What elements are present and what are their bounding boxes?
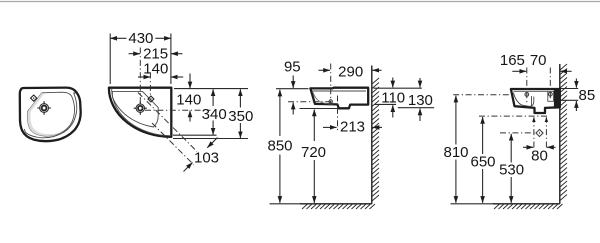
pictogram screw dot xyxy=(74,92,76,94)
svg-text:85: 85 xyxy=(579,87,596,104)
svg-text:340: 340 xyxy=(202,106,227,123)
side view outlet diamond xyxy=(536,129,543,136)
extension line top right xyxy=(174,88,248,90)
pictogram drain crosshair xyxy=(37,101,51,115)
pictogram inner rim xyxy=(24,93,77,138)
dimension 80 xyxy=(523,147,556,164)
side view overflow box xyxy=(548,91,554,101)
front view fixing centerline horizontal xyxy=(288,101,331,103)
svg-text:350: 350 xyxy=(228,108,253,125)
svg-text:110: 110 xyxy=(381,89,405,106)
svg-text:430: 430 xyxy=(128,30,153,47)
dimension 103 xyxy=(184,138,220,172)
svg-text:80: 80 xyxy=(531,148,548,165)
front view fixing centerline vertical xyxy=(330,64,332,105)
side view bowl section xyxy=(513,93,534,107)
dimension 810 xyxy=(443,96,468,203)
side view wall hatch xyxy=(560,64,567,201)
centerline faucet vertical xyxy=(149,73,151,97)
dimension 530 xyxy=(499,134,524,203)
dimension 650 xyxy=(470,117,495,203)
front view wall xyxy=(371,66,373,204)
side view rim extension right xyxy=(561,88,579,90)
side view drain height centerline 650 xyxy=(479,115,547,117)
dimension 165 70 xyxy=(500,52,572,71)
side view deck inner xyxy=(514,90,559,92)
diagonal centerline offset xyxy=(152,123,194,165)
side view wall xyxy=(559,64,561,204)
top view rim inner arc xyxy=(112,89,171,136)
front view fixing hole xyxy=(329,100,332,103)
dimension 130 xyxy=(408,78,433,121)
pictogram bowl xyxy=(27,92,74,136)
svg-text:290: 290 xyxy=(338,63,363,80)
front view basin bottom extension xyxy=(300,108,338,110)
side view holes horizontal centerline xyxy=(453,94,510,96)
svg-text:130: 130 xyxy=(408,92,433,109)
side view hole marker 1 xyxy=(525,93,529,97)
extension line 350 bottom xyxy=(173,138,248,140)
side view floor hatch xyxy=(494,204,563,209)
dimension 215 xyxy=(129,45,183,62)
svg-text:140: 140 xyxy=(176,92,201,109)
dimension 140 right xyxy=(176,74,201,122)
front view basin profile xyxy=(310,88,368,109)
top view faucet diamond xyxy=(148,96,154,102)
dimension 140 top xyxy=(138,60,183,77)
pictogram overflow diamond xyxy=(31,95,37,101)
diagonal centerline main xyxy=(138,93,197,152)
extension line 340 bottom xyxy=(173,134,217,136)
svg-text:530: 530 xyxy=(499,162,524,179)
top view bowl xyxy=(112,92,158,127)
svg-text:165: 165 xyxy=(500,52,525,69)
dimension 95 xyxy=(284,59,301,115)
svg-text:810: 810 xyxy=(443,144,468,161)
side view hole centerline 1 xyxy=(526,68,528,105)
svg-text:140: 140 xyxy=(143,60,168,77)
dimension 290 xyxy=(319,63,382,80)
top view drain crosshair xyxy=(134,102,147,115)
side view hole marker 2 xyxy=(548,92,552,96)
top view outline xyxy=(109,88,171,137)
side view floor line xyxy=(451,203,493,205)
front view wall hatch xyxy=(372,78,379,201)
dimension 110 xyxy=(381,78,405,118)
side view outlet verticals with arrows xyxy=(533,117,535,147)
side view basin profile xyxy=(511,89,560,113)
svg-text:70: 70 xyxy=(530,52,547,69)
front view floor line xyxy=(270,203,301,205)
pictogram bowl shade xyxy=(27,93,64,136)
front view drain centerline vertical xyxy=(337,96,339,132)
side view hole centerline 2 xyxy=(549,68,551,100)
svg-text:850: 850 xyxy=(267,138,292,155)
centerline drain vertical xyxy=(139,48,141,105)
dimension 850 xyxy=(267,90,292,203)
front view rim inner xyxy=(312,90,366,92)
side view trap inner xyxy=(531,96,533,107)
side view drain height centerline 530 xyxy=(500,132,537,134)
front view bowl section curve xyxy=(313,92,333,105)
extension line 130 bottom xyxy=(398,107,434,109)
centerline drain horizontal xyxy=(145,109,211,111)
front view rim extension right xyxy=(374,87,422,89)
svg-text:103: 103 xyxy=(194,150,219,167)
dimension 350 xyxy=(228,89,253,138)
top border line xyxy=(0,1,600,3)
extension line 110 bottom xyxy=(375,103,397,105)
dimension 213 xyxy=(323,119,382,136)
svg-text:95: 95 xyxy=(284,59,301,76)
dimension 85 xyxy=(576,79,595,112)
svg-text:213: 213 xyxy=(340,119,365,136)
dimension 430 xyxy=(110,30,171,84)
dimension 720 xyxy=(301,110,326,203)
dimension 340 xyxy=(202,89,227,135)
pictogram corner basin xyxy=(20,88,81,142)
front view rim extension left xyxy=(276,88,309,90)
svg-text:720: 720 xyxy=(301,144,326,161)
svg-text:650: 650 xyxy=(470,153,495,170)
side view rear ceramic section xyxy=(554,90,560,107)
side view fixing extension right xyxy=(561,99,579,101)
front view floor hatch xyxy=(302,204,375,209)
